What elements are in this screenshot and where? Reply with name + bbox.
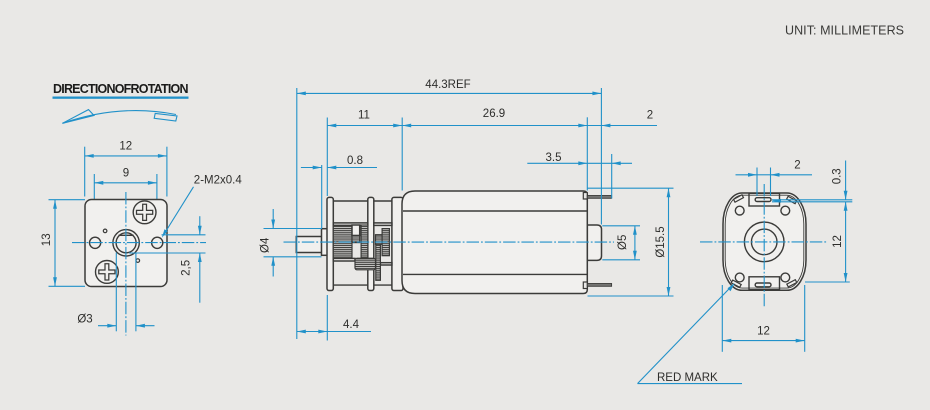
terminal slot top xyxy=(755,198,771,202)
dim 2 line (rear) xyxy=(736,174,758,176)
svg-text:2,5: 2,5 xyxy=(181,260,193,276)
bearing boss circle xyxy=(744,222,784,262)
shaft hole flat chord xyxy=(119,234,134,236)
dim 12 ext lines xyxy=(84,147,86,197)
red mark leader xyxy=(638,285,734,384)
top screw xyxy=(133,201,156,224)
dim 44.3REF line xyxy=(297,92,602,94)
gearcase bottom line xyxy=(333,284,368,286)
svg-text:9: 9 xyxy=(123,167,129,179)
svg-text:Ø5: Ø5 xyxy=(617,235,629,250)
rotation curved arrow xyxy=(62,110,177,124)
left view horizontal centerline xyxy=(72,242,206,244)
dim 12 right ext line xyxy=(805,281,850,283)
svg-text:Ø15.5: Ø15.5 xyxy=(655,226,667,257)
dim 12 bottom ext lines xyxy=(721,285,723,352)
shaft collar xyxy=(322,229,328,256)
rear shell outline xyxy=(723,193,806,290)
gear G3 tall xyxy=(361,225,368,258)
dim 13 ext lines xyxy=(49,199,86,201)
corner tab top-left xyxy=(734,195,744,202)
terminal pin bottom xyxy=(587,284,611,287)
svg-text:11: 11 xyxy=(358,109,370,121)
dim 12 right line xyxy=(845,202,847,282)
svg-text:4.4: 4.4 xyxy=(343,319,360,331)
dim 44.3REF ext lines xyxy=(296,88,298,339)
gear rail bottom right xyxy=(380,263,392,265)
svg-text:13: 13 xyxy=(41,233,53,246)
gear spacer block xyxy=(352,225,360,236)
svg-text:RED MARK: RED MARK xyxy=(657,372,718,384)
dim 11 / 26.9 ext lines xyxy=(326,118,328,197)
svg-text:DIRECTIONOFROTATION: DIRECTIONOFROTATION xyxy=(53,82,189,96)
middle view centerline xyxy=(284,241,615,243)
gear rail top left xyxy=(333,223,368,226)
faceplate square xyxy=(85,200,167,287)
dim 9 ext lines xyxy=(93,174,95,237)
end cap bump xyxy=(587,225,601,260)
svg-text:26.9: 26.9 xyxy=(483,108,505,120)
dim 0.8 line xyxy=(301,167,322,169)
motor shaft xyxy=(296,237,321,253)
svg-text:12: 12 xyxy=(832,235,844,248)
leader 2-M2x0.4 xyxy=(164,187,194,235)
dim Ø4 arrows xyxy=(272,209,274,229)
dim 12 bottom line xyxy=(722,340,804,342)
dim 0.8 ext lines xyxy=(321,165,323,228)
gear G1 first stage xyxy=(333,225,352,258)
dim 4.4 ext line xyxy=(326,295,328,341)
gear G4 lower xyxy=(355,258,376,270)
gearbox front plate xyxy=(327,197,333,290)
dim 9 line xyxy=(94,182,157,184)
dim Ø4 ext lines xyxy=(264,228,323,230)
gear rail bottom left xyxy=(333,258,355,261)
gear rail top right xyxy=(374,223,392,226)
svg-text:2-M2x0.4: 2-M2x0.4 xyxy=(194,174,243,186)
dim 4.4 line xyxy=(297,331,371,333)
red mark underline xyxy=(638,383,743,385)
terminal pin top xyxy=(587,196,611,199)
dim 0.3 arrows xyxy=(845,161,847,200)
svg-text:Ø4: Ø4 xyxy=(260,237,272,253)
gear G7 thin spur xyxy=(376,244,381,280)
dim 2.5 line and arrows xyxy=(199,216,201,235)
svg-text:0.8: 0.8 xyxy=(347,155,363,167)
terminal base bottom xyxy=(583,282,587,289)
shaft hole circle xyxy=(116,233,136,253)
dim Ø5 line xyxy=(634,226,636,260)
svg-text:2: 2 xyxy=(647,110,653,122)
pin dot lower xyxy=(136,259,140,263)
terminal slot bottom xyxy=(755,283,771,287)
motor face plate xyxy=(392,197,403,290)
gear G5 xyxy=(376,235,383,245)
svg-text:Ø3: Ø3 xyxy=(77,313,92,325)
corner tab bottom-left xyxy=(731,280,741,287)
gearcase top line xyxy=(333,200,368,202)
right view horizontal centerline xyxy=(700,241,828,243)
direction label underline xyxy=(53,97,189,99)
vent hole top-right xyxy=(781,206,790,215)
svg-text:2: 2 xyxy=(794,159,800,171)
motor body flat line lower xyxy=(403,273,587,275)
dim Ø3 line and arrows xyxy=(98,325,116,327)
corner tab bottom-right xyxy=(787,280,797,287)
pin dot upper xyxy=(103,229,107,233)
vent hole bottom-left xyxy=(735,273,744,282)
dim Ø15.5 ext lines xyxy=(588,187,674,189)
left view vertical centerline xyxy=(125,192,127,336)
svg-text:0.3: 0.3 xyxy=(832,168,844,184)
dim Ø5 ext lines xyxy=(602,225,640,227)
corner tab top-right xyxy=(787,196,797,203)
svg-text:UNIT: MILLIMETERS: UNIT: MILLIMETERS xyxy=(785,24,904,38)
dim 3.5 ext line right xyxy=(611,154,613,199)
dim Ø3 ext lines xyxy=(115,253,117,332)
bearing inner circle xyxy=(751,229,777,255)
dim 3.5 line xyxy=(527,162,632,164)
vent hole top-left xyxy=(735,206,744,215)
gear G6 xyxy=(382,229,389,256)
gear G2 pinion xyxy=(352,236,360,243)
dim 2 ext lines (rear) xyxy=(756,168,758,197)
terminal base top xyxy=(583,193,587,200)
terminal housing top xyxy=(749,193,780,206)
vent hole bottom-right xyxy=(781,273,790,282)
svg-text:44.3REF: 44.3REF xyxy=(425,79,470,91)
svg-text:3.5: 3.5 xyxy=(546,152,562,164)
rear shell inner lip xyxy=(725,195,804,288)
boss outer circle xyxy=(113,230,139,256)
dim 12 line xyxy=(85,155,167,157)
bottom screw xyxy=(96,261,119,284)
terminal housing bottom xyxy=(749,277,780,290)
right view vertical centerline xyxy=(763,184,765,308)
dim 2.5 ext lines xyxy=(162,234,206,236)
left M2 hole xyxy=(90,237,101,248)
svg-text:12: 12 xyxy=(119,141,132,153)
gearbox middle plate xyxy=(368,197,374,290)
svg-text:12: 12 xyxy=(757,325,770,337)
dim 0.3 ext lines xyxy=(772,199,852,201)
dim 11 26.9 2 line xyxy=(327,125,657,127)
motor body xyxy=(402,191,587,294)
right M2 hole xyxy=(152,237,163,248)
motor body flat line upper xyxy=(403,210,587,212)
dim 13 line xyxy=(54,200,56,287)
dim Ø15.5 line xyxy=(668,188,670,296)
